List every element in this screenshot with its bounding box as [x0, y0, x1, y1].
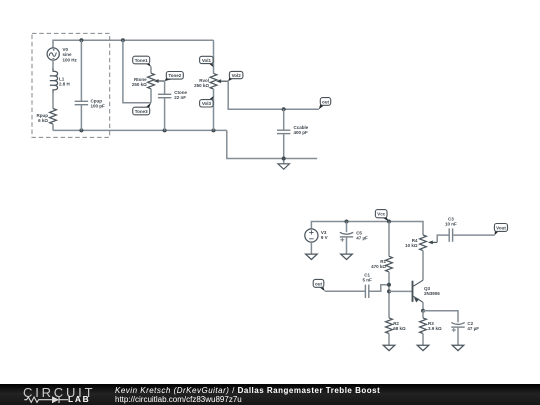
wire Ctone to bottom rail — [164, 98, 166, 131]
node junction dot Ctone bottom — [163, 128, 167, 132]
wire C5 to ground — [346, 237, 348, 254]
svg-text:400 pF: 400 pF — [294, 130, 309, 135]
wire Q3 emitter down — [422, 302, 424, 311]
wire base — [389, 290, 413, 292]
svg-text:Tone3: Tone3 — [135, 109, 148, 114]
capacitor Ctone — [158, 94, 171, 97]
flag Vol2 — [228, 75, 233, 81]
potentiometer Rvol 250k — [213, 40, 215, 73]
dashed selection box around pickup model — [32, 33, 110, 137]
svg-text:250 kΩ: 250 kΩ — [132, 82, 147, 87]
wire Vol2 wiper to out — [228, 81, 319, 109]
svg-text:100 pF: 100 pF — [91, 103, 106, 108]
node junction dot Ccable top — [282, 107, 286, 111]
flag Tone1 — [145, 62, 151, 67]
wire V3 to ground — [310, 242, 312, 254]
ground under V3 — [306, 254, 318, 259]
transistor Q3 2N3906 — [413, 280, 424, 302]
wire Ccable to ground — [283, 134, 285, 164]
wiper arrow of Rvol — [219, 80, 228, 82]
node junction dot R1 top — [387, 220, 391, 224]
ground under C5 — [341, 254, 353, 259]
capacitor C3 — [449, 228, 452, 241]
resistor R1 — [386, 256, 393, 272]
svg-text:47 µF: 47 µF — [356, 236, 368, 241]
flag Vol1 — [209, 62, 214, 68]
voltage source V3 9V — [305, 229, 318, 242]
flag out (amp input) — [319, 285, 324, 291]
wire Cpup column bottom — [80, 105, 82, 131]
svg-text:Vout: Vout — [496, 226, 506, 231]
svg-text:6 kΩ: 6 kΩ — [38, 118, 48, 123]
svg-text:10 nF: 10 nF — [445, 222, 457, 227]
flag Vout — [495, 228, 499, 235]
node junction dot jog — [387, 283, 391, 287]
wire bottom rail pickup — [53, 129, 227, 131]
svg-text:Vol1: Vol1 — [202, 58, 212, 63]
wire Vcc top rail — [311, 222, 423, 236]
ground under R3 — [417, 345, 429, 350]
wire top rail pickup — [53, 40, 214, 48]
wire R4 bottom to Q3 collector — [422, 251, 424, 281]
voltage source V0 sine — [47, 48, 59, 60]
potentiometer R4 10k — [420, 235, 427, 251]
wire C1 to base rail (jog) — [369, 285, 389, 292]
flag Vcc — [382, 216, 389, 222]
wire R3 to ground — [422, 334, 424, 346]
wiper arrow of Rtone — [157, 80, 165, 82]
svg-text:10 kΩ: 10 kΩ — [405, 243, 418, 248]
capacitor C1 — [365, 285, 368, 298]
capacitor C2 (polarized) — [451, 323, 464, 333]
potentiometer Rtone 250k — [150, 67, 152, 74]
wire C5 column top — [346, 222, 348, 233]
wire V0 to L1 — [52, 60, 54, 68]
node junction dot base — [387, 289, 391, 293]
wire tone left rail — [123, 40, 151, 102]
ground under R2 — [383, 345, 395, 350]
wire ground rail — [227, 130, 317, 158]
wire R1 column — [388, 222, 390, 257]
svg-text:22 nF: 22 nF — [174, 95, 186, 100]
node junction dot emitter — [421, 309, 425, 313]
node junction dot Rvol bottom — [212, 128, 216, 132]
wiper arrow of R4 — [431, 241, 437, 243]
node junction dot Cpup bottom — [79, 128, 83, 132]
flag Vol3 — [209, 96, 214, 102]
svg-text:3.9 kΩ: 3.9 kΩ — [428, 326, 442, 331]
svg-text:out: out — [322, 99, 329, 104]
CircuitLab logo wordmark — [23, 386, 95, 399]
svg-text:Vol3: Vol3 — [202, 101, 212, 106]
wire emitter to C2 — [423, 311, 458, 323]
svg-text:Vcc: Vcc — [377, 212, 386, 217]
flag Tone3 — [145, 103, 151, 110]
resistor R2 — [386, 318, 393, 334]
node junction dot at tone rail top — [121, 38, 125, 42]
node junction dot at Cpup top — [79, 38, 83, 42]
footer branding bar — [0, 384, 540, 405]
wire R1 to R2 — [388, 272, 390, 318]
svg-text:2N3906: 2N3906 — [424, 291, 440, 296]
node junction dot C5 top — [345, 220, 349, 224]
ground under C2 — [452, 345, 464, 350]
flag Tone2 — [165, 76, 173, 81]
footer credit text — [115, 386, 380, 395]
wire R3 top — [422, 311, 424, 318]
capacitor C5 (polarized) — [340, 232, 353, 242]
svg-text:470 kΩ: 470 kΩ — [371, 264, 386, 269]
flag out (pickup side) — [319, 102, 324, 109]
CircuitLab logo resistor + diode glyph — [0, 384, 110, 405]
wire Ctone column — [164, 81, 166, 94]
wire Cpup column top — [80, 40, 82, 101]
svg-text:9 V: 9 V — [321, 235, 328, 240]
svg-text:100 Hz: 100 Hz — [63, 57, 78, 62]
inductor L1 — [50, 68, 58, 93]
svg-text:Tone1: Tone1 — [135, 58, 148, 63]
wire L1 to Rpup — [52, 92, 54, 109]
wire C2 to ground — [457, 327, 459, 345]
svg-text:47 µF: 47 µF — [467, 326, 479, 331]
svg-text:68 kΩ: 68 kΩ — [393, 326, 406, 331]
wire C3 to Vout — [453, 234, 495, 236]
svg-text:Tone2: Tone2 — [168, 73, 181, 78]
resistor R3 — [420, 318, 427, 334]
capacitor Cpup — [75, 101, 88, 104]
ground (pickup circuit) — [278, 164, 290, 169]
svg-text:5 nF: 5 nF — [362, 278, 372, 283]
wire out flag to C1 — [325, 290, 366, 292]
svg-text:out: out — [315, 281, 322, 286]
svg-text:Vol2: Vol2 — [232, 73, 242, 78]
svg-text:250 kΩ: 250 kΩ — [194, 83, 209, 88]
wire R4 wiper to C3 — [437, 235, 449, 242]
wire R2 to ground — [388, 334, 390, 346]
capacitor Ccable — [277, 130, 290, 133]
resistor Rpup — [50, 109, 57, 125]
node junction dot ground rail — [282, 157, 286, 161]
wire Ccable column top — [283, 109, 285, 130]
wire Rpup to bottom rail — [52, 124, 54, 130]
svg-text:2.8 H: 2.8 H — [59, 81, 70, 86]
